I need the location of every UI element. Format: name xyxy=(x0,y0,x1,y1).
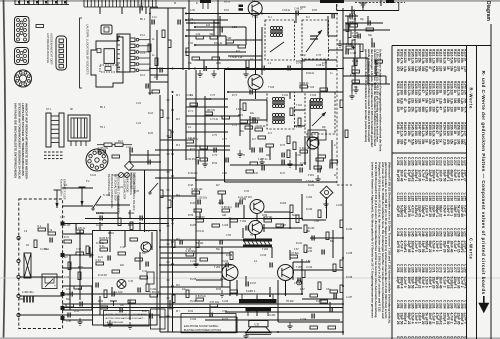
svg-text:C 48: C 48 xyxy=(222,173,228,175)
wire xyxy=(186,29,214,31)
svg-text:R150: R150 xyxy=(428,122,432,130)
svg-text:C 280: C 280 xyxy=(464,264,468,273)
bus line xyxy=(159,95,161,332)
resistor xyxy=(346,24,349,32)
wire vertical xyxy=(69,255,71,310)
capacitor xyxy=(170,305,172,310)
wire xyxy=(255,90,257,100)
node junction xyxy=(194,68,196,70)
resistor xyxy=(290,108,293,116)
svg-text:4 57: 4 57 xyxy=(300,288,305,291)
capacitor xyxy=(298,278,300,283)
svg-text:C 204: C 204 xyxy=(407,157,411,166)
svg-text:R 102: R 102 xyxy=(128,212,135,215)
legend list rotated column 2 xyxy=(107,174,121,214)
svg-text:10k: 10k xyxy=(449,66,453,72)
wire xyxy=(245,27,247,45)
svg-text:R131: R131 xyxy=(432,81,436,89)
svg-text:1,2k: 1,2k xyxy=(414,66,418,72)
svg-text:R138: R138 xyxy=(456,81,460,89)
capacitor xyxy=(334,294,336,299)
svg-text:10nF 40: 10nF 40 xyxy=(428,313,432,325)
resistor xyxy=(34,240,37,248)
page top scan band xyxy=(0,0,500,2)
svg-text:C 244: C 244 xyxy=(407,228,411,237)
wire xyxy=(89,247,91,255)
svg-text:R125: R125 xyxy=(410,81,414,89)
svg-text:68pF 22: 68pF 22 xyxy=(428,241,432,253)
wire xyxy=(186,51,246,53)
svg-text:R160: R160 xyxy=(464,122,468,130)
svg-text:8,2k: 8,2k xyxy=(442,58,446,64)
capacitor xyxy=(120,308,122,313)
svg-text:220: 220 xyxy=(432,98,436,104)
capacitor xyxy=(246,282,248,287)
svg-text:R 231: R 231 xyxy=(308,185,315,187)
ground symbol top right xyxy=(360,3,367,10)
resistor xyxy=(238,45,246,48)
svg-text:R 301: R 301 xyxy=(350,75,357,77)
wire xyxy=(234,39,262,41)
resistor xyxy=(310,294,318,297)
svg-text:R143: R143 xyxy=(403,122,407,130)
svg-text:C 262: C 262 xyxy=(400,264,404,273)
svg-text:R 233: R 233 xyxy=(306,251,313,253)
svg-text:D: D xyxy=(196,2,198,5)
svg-text:470: 470 xyxy=(396,66,400,72)
svg-text:C 202: C 202 xyxy=(400,157,404,166)
ground xyxy=(77,318,82,325)
wire xyxy=(261,27,263,75)
node junction xyxy=(195,179,197,181)
svg-text:R 45 220: R 45 220 xyxy=(188,173,198,175)
wire xyxy=(347,16,349,44)
svg-text:R 219: R 219 xyxy=(190,301,197,303)
ground xyxy=(237,150,242,157)
svg-text:Diagram: Diagram xyxy=(485,1,491,22)
IF module box 2 xyxy=(305,92,335,134)
svg-text:1,2k: 1,2k xyxy=(432,58,436,64)
round tube socket view xyxy=(15,70,32,87)
svg-text:8,2k: 8,2k xyxy=(425,66,429,72)
svg-text:S 101: S 101 xyxy=(90,175,97,177)
wire xyxy=(343,75,386,77)
resistor xyxy=(290,205,293,213)
svg-text:2,2k: 2,2k xyxy=(403,107,407,113)
wire xyxy=(130,161,160,163)
wire xyxy=(85,218,302,220)
svg-text:47: 47 xyxy=(435,131,439,135)
svg-text:C 52 4u: C 52 4u xyxy=(306,181,315,183)
svg-text:R126: R126 xyxy=(414,81,418,89)
wire xyxy=(62,254,92,256)
capacitor xyxy=(358,34,360,39)
wire xyxy=(343,29,390,31)
svg-text:R 35: R 35 xyxy=(64,295,70,297)
node junction xyxy=(185,13,187,15)
svg-text:15k: 15k xyxy=(407,131,411,137)
resistor xyxy=(192,188,204,194)
wire xyxy=(130,169,172,171)
transistor T205 output xyxy=(278,265,294,281)
bus tick marks xyxy=(167,100,175,316)
wire xyxy=(292,262,294,280)
node junction xyxy=(342,303,344,305)
variable cap in FM box 2 xyxy=(306,30,322,52)
svg-text:1,5nF 0: 1,5nF 0 xyxy=(425,277,429,288)
wire xyxy=(117,210,119,219)
svg-text:C 72 4u: C 72 4u xyxy=(210,119,219,121)
transistor T103 xyxy=(307,137,319,149)
svg-text:R112: R112 xyxy=(435,49,439,57)
svg-text:GL 101: GL 101 xyxy=(96,225,104,227)
svg-text:68pF 22: 68pF 22 xyxy=(439,205,443,217)
wire xyxy=(236,317,238,332)
svg-text:C 251: C 251 xyxy=(432,228,436,237)
node junction xyxy=(79,254,81,256)
capacitor xyxy=(368,21,370,26)
node junction xyxy=(301,269,303,271)
svg-text:0,5M: 0,5M xyxy=(232,27,237,29)
svg-text:C 207: C 207 xyxy=(417,157,421,166)
svg-text:56k: 56k xyxy=(417,66,421,72)
svg-text:C2u: C2u xyxy=(326,288,331,291)
svg-text:C 247: C 247 xyxy=(417,228,421,237)
svg-text:R 59: R 59 xyxy=(188,214,194,217)
svg-text:R108: R108 xyxy=(421,49,425,57)
svg-text:5,6k: 5,6k xyxy=(425,90,429,96)
wire xyxy=(328,35,337,37)
ground xyxy=(287,322,292,329)
wire xyxy=(304,136,306,165)
svg-text:500pF 1: 500pF 1 xyxy=(414,277,418,289)
svg-text:C 271: C 271 xyxy=(432,264,436,273)
svg-text:4,7nF 2: 4,7nF 2 xyxy=(449,313,453,324)
svg-text:68pF 22: 68pF 22 xyxy=(417,277,421,289)
wire xyxy=(62,314,160,316)
svg-text:C 42: C 42 xyxy=(120,247,126,249)
svg-text:R158: R158 xyxy=(456,122,460,130)
resistor xyxy=(360,44,363,52)
resistor xyxy=(168,130,171,138)
svg-text:C 120 10u: C 120 10u xyxy=(196,197,208,200)
svg-text:1k: 1k xyxy=(453,90,457,94)
svg-text:C 2 50u: C 2 50u xyxy=(40,249,49,251)
svg-text:R 25: R 25 xyxy=(148,133,154,135)
wire vertical xyxy=(149,8,151,95)
wire xyxy=(242,228,244,238)
svg-text:C 254: C 254 xyxy=(442,228,446,237)
resistor xyxy=(196,150,199,158)
resistor xyxy=(68,262,71,270)
svg-text:56k: 56k xyxy=(425,131,429,137)
svg-text:R 74: R 74 xyxy=(238,115,244,117)
svg-text:TR 2: TR 2 xyxy=(250,290,256,293)
wire xyxy=(62,307,343,309)
svg-text:18: 18 xyxy=(453,131,457,135)
resistor xyxy=(100,306,108,309)
svg-text:4,7k: 4,7k xyxy=(453,66,457,72)
svg-text:R 77: R 77 xyxy=(190,149,196,151)
resistor xyxy=(162,30,165,38)
transistor T in module xyxy=(141,242,151,252)
svg-text:C 297: C 297 xyxy=(453,300,457,309)
svg-text:C 217: C 217 xyxy=(453,157,457,166)
svg-text:C 265: C 265 xyxy=(410,264,414,273)
svg-text:C 260: C 260 xyxy=(464,228,468,237)
wire xyxy=(264,211,290,213)
resistor xyxy=(276,224,284,227)
svg-text:C 218: C 218 xyxy=(294,283,301,285)
ground xyxy=(202,160,207,167)
resistor xyxy=(340,220,343,228)
svg-text:22k: 22k xyxy=(428,90,432,96)
svg-text:R157: R157 xyxy=(453,122,457,130)
wire xyxy=(204,96,206,160)
svg-text:C 234: C 234 xyxy=(442,193,446,202)
wire xyxy=(352,83,390,85)
capacitor xyxy=(70,292,72,297)
capacitor xyxy=(146,84,148,89)
resistor xyxy=(318,155,326,158)
resistor xyxy=(36,25,44,28)
ground xyxy=(219,290,224,297)
svg-text:1nF5 30: 1nF5 30 xyxy=(396,241,400,253)
wire xyxy=(221,247,223,287)
svg-text:C 299: C 299 xyxy=(460,300,464,309)
ground xyxy=(243,332,248,339)
svg-text:0,1uF 2: 0,1uF 2 xyxy=(464,205,468,216)
wire xyxy=(309,100,311,170)
svg-text:BU 2: BU 2 xyxy=(100,107,106,109)
wire xyxy=(147,150,149,162)
node junction xyxy=(342,257,344,259)
svg-text:1,2k: 1,2k xyxy=(425,107,429,113)
svg-text:3,3k: 3,3k xyxy=(449,98,453,104)
resistor xyxy=(366,28,374,31)
svg-text:1nF5 30: 1nF5 30 xyxy=(446,313,450,325)
svg-text:22k: 22k xyxy=(410,98,414,104)
svg-text:1nF5 30: 1nF5 30 xyxy=(407,205,411,217)
svg-text:R 12: R 12 xyxy=(140,35,146,37)
svg-text:C 300: C 300 xyxy=(464,300,468,309)
wire xyxy=(150,7,186,9)
svg-text:4,7nF 2: 4,7nF 2 xyxy=(460,277,464,288)
svg-text:C 257: C 257 xyxy=(453,228,457,237)
svg-text:8,2k: 8,2k xyxy=(403,139,407,145)
capacitor xyxy=(312,314,314,319)
svg-text:C 22: C 22 xyxy=(126,147,132,149)
svg-text:C 283: C 283 xyxy=(403,300,407,309)
potentiometer in module xyxy=(42,274,57,289)
svg-text:T 103: T 103 xyxy=(308,86,315,89)
wire xyxy=(302,59,337,61)
resistor xyxy=(310,326,318,329)
svg-text:C 206: C 206 xyxy=(222,225,229,227)
control arrow 2 xyxy=(79,187,86,206)
page bottom scan band xyxy=(0,337,500,339)
wire xyxy=(371,38,373,45)
svg-text:C 259: C 259 xyxy=(460,228,464,237)
node junction xyxy=(159,218,161,220)
svg-text:C 246: C 246 xyxy=(414,228,418,237)
scan fold line xyxy=(0,277,500,279)
svg-text:R 75 2k: R 75 2k xyxy=(190,139,199,141)
svg-text:4,7nF 2: 4,7nF 2 xyxy=(410,205,414,216)
svg-text:330: 330 xyxy=(439,58,443,64)
resistor xyxy=(98,147,109,153)
note left edge connector text block xyxy=(14,103,29,180)
svg-text:18: 18 xyxy=(456,107,460,111)
svg-text:50u: 50u xyxy=(216,248,221,251)
svg-text:R 232: R 232 xyxy=(306,209,313,211)
svg-text:T 204: T 204 xyxy=(214,266,221,269)
svg-text:R134: R134 xyxy=(442,81,446,89)
wire xyxy=(185,70,187,160)
ground xyxy=(107,320,112,327)
legend list rotated xyxy=(122,173,136,211)
bus line xyxy=(167,8,169,332)
svg-text:15pF 20: 15pF 20 xyxy=(432,277,436,289)
svg-text:R 203: R 203 xyxy=(280,203,287,205)
wire xyxy=(343,57,368,59)
svg-text:C 295: C 295 xyxy=(446,300,450,309)
resistor xyxy=(74,286,82,289)
svg-text:LS: LS xyxy=(255,323,260,327)
svg-text:R- und C-Werte der gedruckten: R- und C-Werte der gedruckten Platten — … xyxy=(481,71,486,295)
wire xyxy=(186,22,220,24)
capacitor xyxy=(140,216,142,221)
wire xyxy=(160,195,196,197)
svg-text:T 205: T 205 xyxy=(296,266,303,269)
node junction xyxy=(185,51,187,53)
node junction xyxy=(255,68,257,70)
svg-text:C 290: C 290 xyxy=(428,300,432,309)
svg-text:R 61: R 61 xyxy=(188,310,194,313)
svg-text:R141: R141 xyxy=(396,122,400,130)
svg-text:680: 680 xyxy=(456,98,460,104)
svg-text:R 54: R 54 xyxy=(216,288,222,291)
svg-text:R-Werte: R-Werte xyxy=(468,88,473,110)
node junction xyxy=(229,218,231,220)
wire xyxy=(380,0,382,6)
svg-text:R 207: R 207 xyxy=(280,225,287,227)
svg-text:R 41 1k: R 41 1k xyxy=(96,243,105,245)
ground xyxy=(259,158,264,165)
svg-text:8,2k: 8,2k xyxy=(432,131,436,137)
svg-text:100: 100 xyxy=(407,66,411,72)
node junction xyxy=(185,19,187,21)
svg-text:R 52: R 52 xyxy=(212,162,218,165)
svg-text:R114: R114 xyxy=(442,49,446,57)
svg-text:1,5nF 0: 1,5nF 0 xyxy=(446,205,450,216)
svg-text:C 34: C 34 xyxy=(64,277,70,279)
svg-text:47: 47 xyxy=(403,98,407,102)
resistor xyxy=(192,57,200,60)
resistor xyxy=(330,160,338,163)
svg-text:1,2k: 1,2k xyxy=(464,139,468,145)
capacitor xyxy=(112,292,114,297)
svg-text:500pF 1: 500pF 1 xyxy=(403,313,407,325)
svg-text:47: 47 xyxy=(421,90,425,94)
node junction xyxy=(289,227,291,229)
resistor xyxy=(314,166,322,169)
capacitor xyxy=(352,10,354,15)
svg-text:R 201: R 201 xyxy=(190,203,197,205)
svg-text:C 233: C 233 xyxy=(439,193,443,202)
svg-text:C 203: C 203 xyxy=(403,157,407,166)
diamond test point xyxy=(320,186,333,199)
wire xyxy=(325,60,327,92)
svg-text:C 248: C 248 xyxy=(421,228,425,237)
component value table bands xyxy=(396,49,467,145)
svg-text:R118: R118 xyxy=(456,49,460,57)
connector bar pins xyxy=(203,3,208,9)
svg-text:C 218: C 218 xyxy=(456,157,460,166)
wire xyxy=(228,55,262,57)
svg-text:39k: 39k xyxy=(417,98,421,104)
svg-text:2,2k: 2,2k xyxy=(456,90,460,96)
wire xyxy=(293,269,343,271)
svg-text:R110: R110 xyxy=(428,49,432,57)
resistor xyxy=(118,252,126,255)
capacitor xyxy=(270,263,272,268)
wire xyxy=(255,235,257,239)
capacitor xyxy=(146,262,148,267)
resistor xyxy=(300,147,310,153)
DIN socket view B xyxy=(15,48,29,65)
svg-text:33pF 50: 33pF 50 xyxy=(410,277,414,289)
wire xyxy=(375,60,377,76)
svg-text:C 77: C 77 xyxy=(222,139,228,141)
node junction xyxy=(236,293,238,295)
svg-text:R 46: R 46 xyxy=(142,311,148,313)
svg-text:C 228: C 228 xyxy=(421,193,425,202)
wire xyxy=(160,286,230,288)
svg-text:C 201: C 201 xyxy=(396,157,400,166)
wire xyxy=(160,264,232,266)
node junction xyxy=(255,13,257,15)
table R/C separator line xyxy=(392,152,467,154)
FM coil L1 xyxy=(270,26,283,36)
resistor xyxy=(196,295,207,301)
svg-text:C 256: C 256 xyxy=(449,228,453,237)
capacitor xyxy=(246,226,248,231)
svg-text:C 206: C 206 xyxy=(414,157,418,166)
svg-text:C 237: C 237 xyxy=(346,297,353,299)
svg-text:C 274: C 274 xyxy=(442,264,446,273)
svg-text:22k: 22k xyxy=(435,66,439,72)
svg-text:R 78: R 78 xyxy=(240,155,246,157)
svg-text:C 212: C 212 xyxy=(190,261,197,263)
capacitor xyxy=(346,50,348,55)
node junction xyxy=(172,149,174,151)
svg-text:C-Werte: C-Werte xyxy=(468,238,473,260)
wire xyxy=(345,15,358,17)
svg-text:T 103: T 103 xyxy=(296,105,303,107)
svg-text:330: 330 xyxy=(414,90,418,96)
wire xyxy=(124,230,126,247)
stub xyxy=(249,136,251,150)
svg-text:30p: 30p xyxy=(368,34,373,37)
svg-text:4 207 4n: 4 207 4n xyxy=(258,158,268,161)
svg-text:R 21: R 21 xyxy=(118,141,124,143)
svg-text:10k: 10k xyxy=(442,90,446,96)
resistor xyxy=(354,58,357,66)
wire xyxy=(62,319,92,321)
svg-text:TR 202: TR 202 xyxy=(286,301,294,303)
svg-text:5-20pF2: 5-20pF2 xyxy=(400,205,404,217)
